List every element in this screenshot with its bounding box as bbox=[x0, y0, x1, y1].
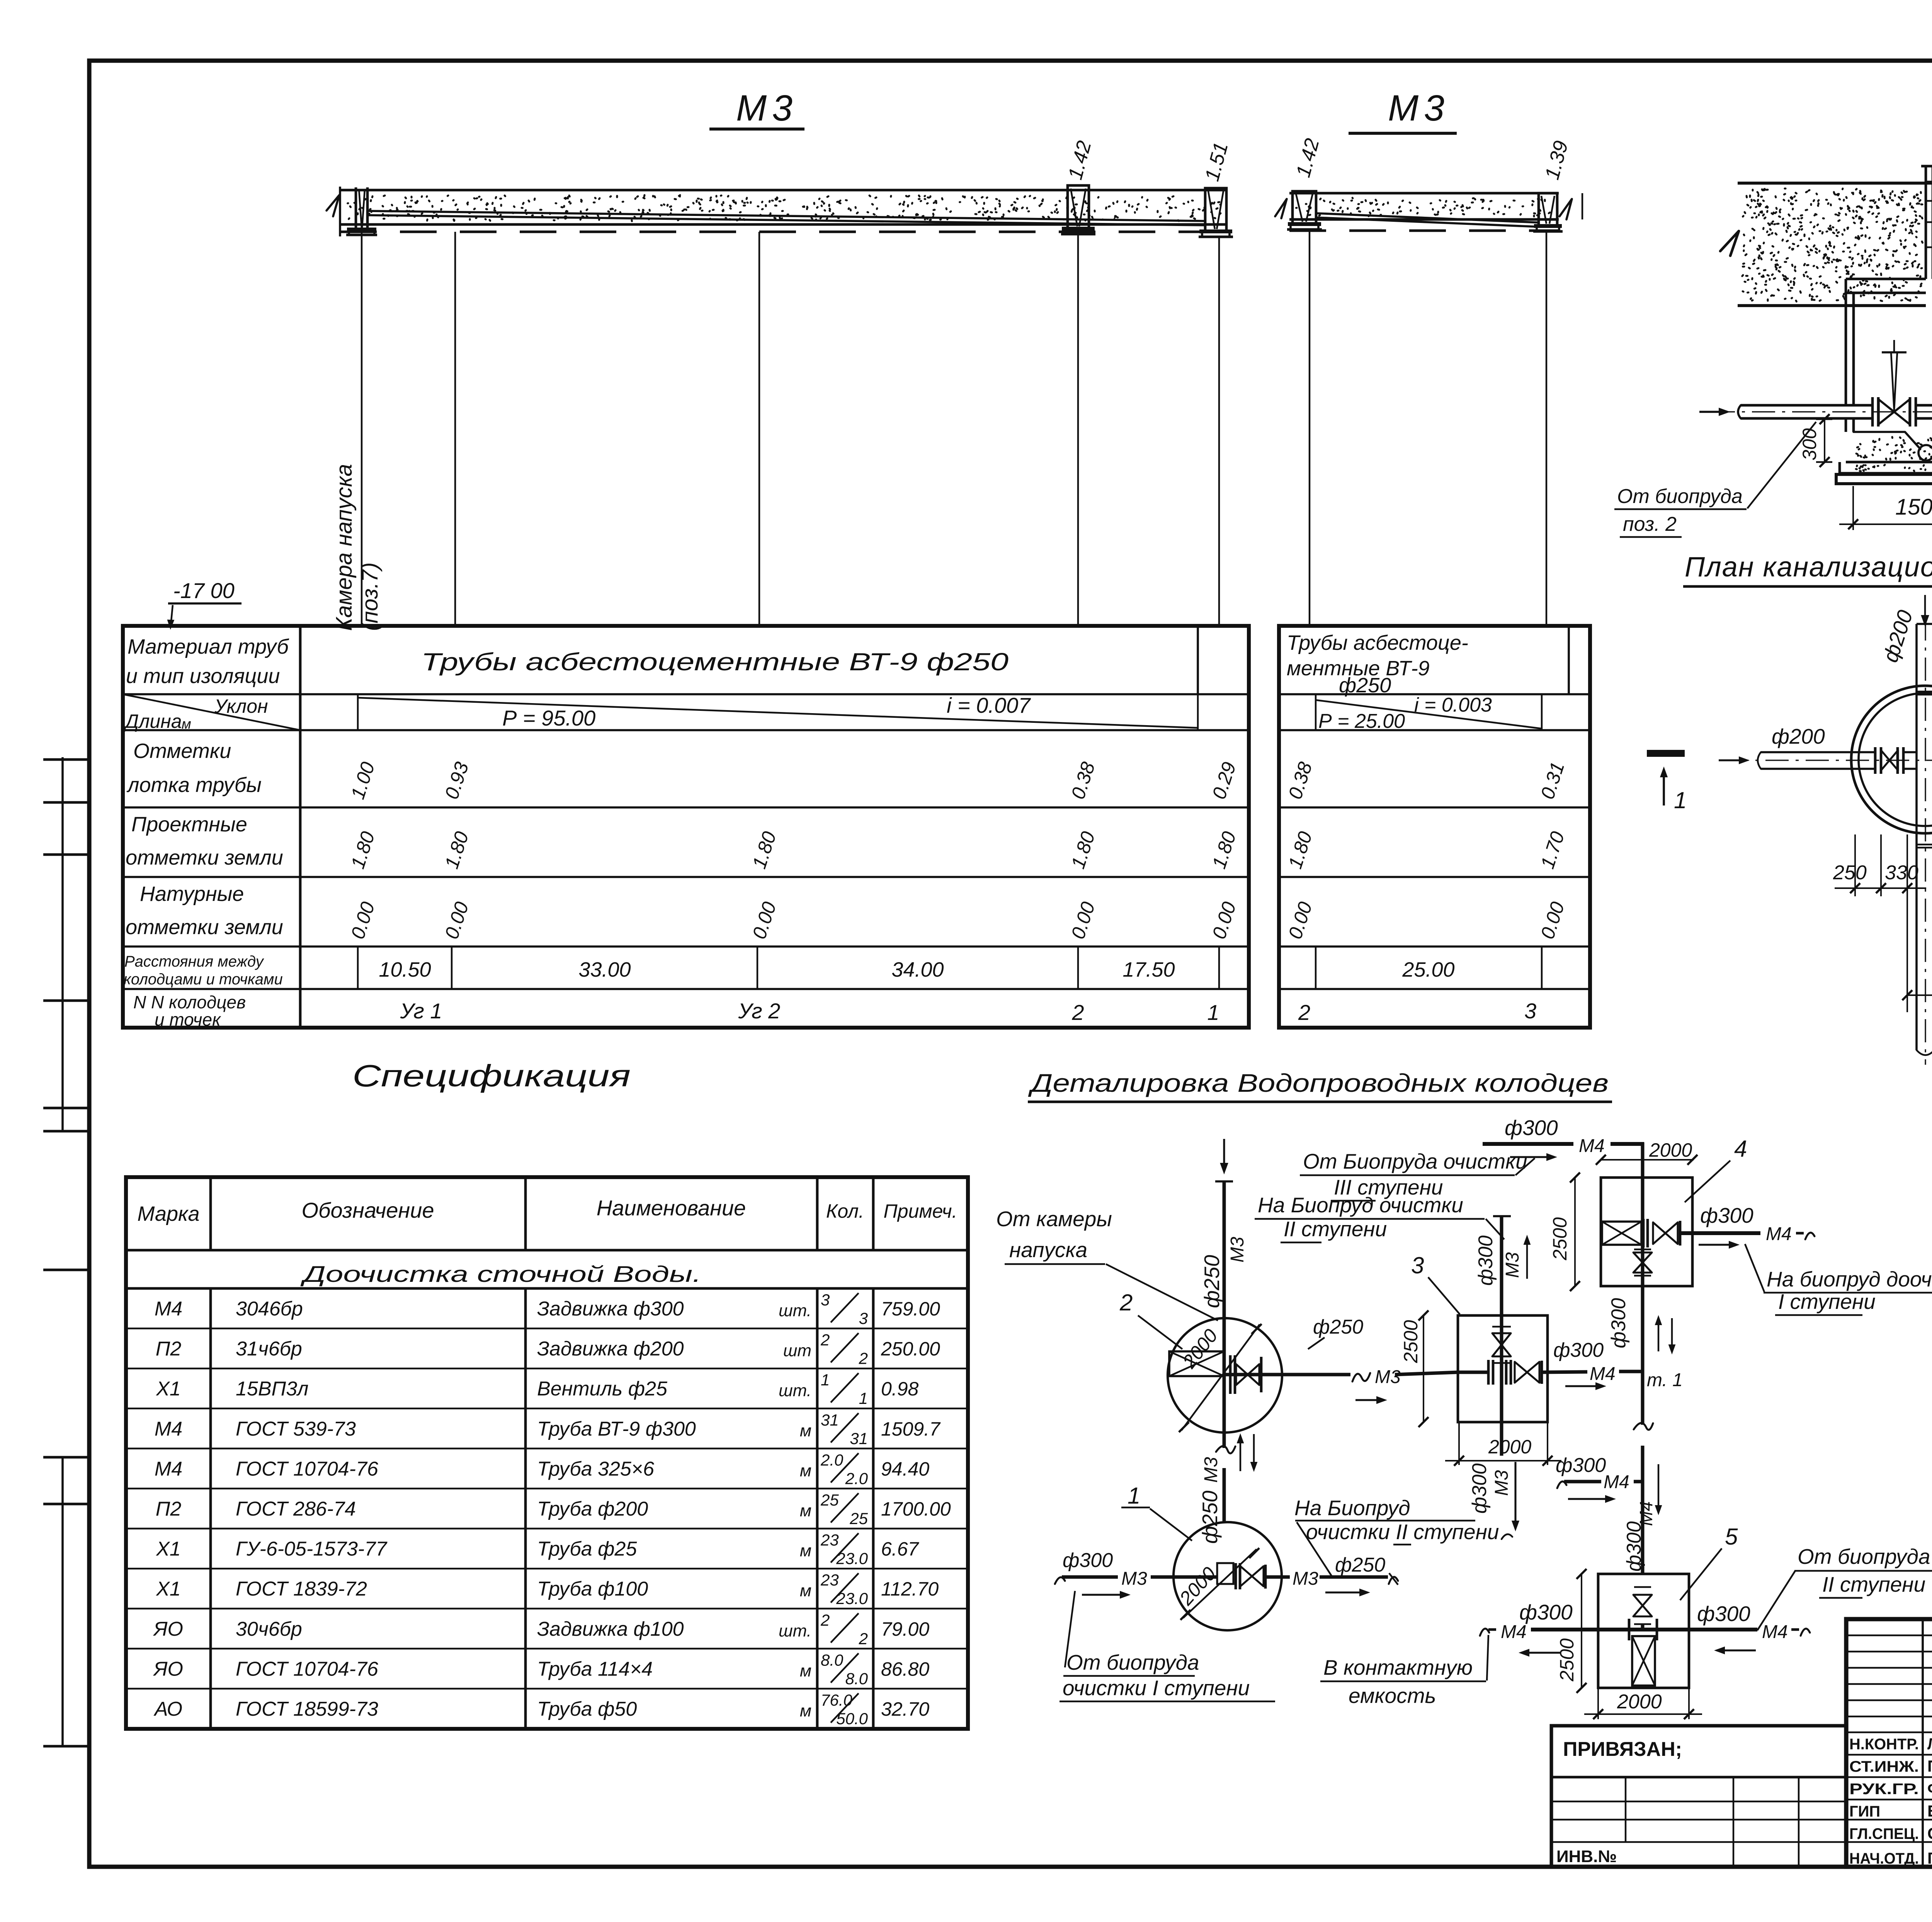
table row line bbox=[123, 729, 1249, 731]
well 1 circle bbox=[1173, 1522, 1282, 1630]
svg-text:Обозначение: Обозначение bbox=[301, 1198, 434, 1222]
inflow arrow well2 bbox=[1223, 1139, 1225, 1167]
svg-text:В контактную: В контактную bbox=[1323, 1655, 1473, 1679]
svg-text:Материал труб: Материал труб bbox=[128, 635, 289, 658]
vertical pipe plan bbox=[1915, 624, 1918, 1050]
svg-text:ГОСТ 18599-73: ГОСТ 18599-73 bbox=[236, 1698, 378, 1720]
svg-text:2500: 2500 bbox=[1400, 1320, 1422, 1363]
svg-text:ф300: ф300 bbox=[1468, 1463, 1491, 1514]
svg-text:От камеры: От камеры bbox=[996, 1207, 1112, 1231]
svg-text:250.00: 250.00 bbox=[881, 1338, 940, 1360]
svg-text:М4: М4 bbox=[1636, 1501, 1656, 1526]
svg-text:Уг 2: Уг 2 bbox=[738, 999, 781, 1023]
svg-text:м: м bbox=[182, 716, 191, 732]
spec row line bbox=[126, 1608, 968, 1609]
title underline 2 bbox=[1349, 132, 1457, 135]
arrows up down junction bbox=[1658, 1321, 1659, 1351]
svg-text:Труба ф200: Труба ф200 bbox=[537, 1498, 648, 1520]
svg-text:2000: 2000 bbox=[1617, 1691, 1662, 1713]
svg-text:3046бр: 3046бр bbox=[236, 1298, 303, 1320]
privyazan table bbox=[1551, 1726, 1846, 1867]
svg-text:25: 25 bbox=[849, 1509, 868, 1528]
spec row line bbox=[126, 1368, 968, 1369]
well 5 square bbox=[1598, 1574, 1689, 1688]
plan valve left bbox=[1874, 747, 1877, 774]
svg-text:СИРОТА: СИРОТА bbox=[1927, 1824, 1932, 1842]
svg-text:300: 300 bbox=[1799, 428, 1820, 461]
svg-text:шт.: шт. bbox=[779, 1381, 811, 1400]
spec header row line bbox=[126, 1249, 968, 1252]
svg-text:ЯО: ЯО bbox=[153, 1658, 183, 1680]
well5 flange pair on pipe bbox=[1628, 1619, 1631, 1640]
pipe joints bbox=[1917, 691, 1932, 692]
svg-text:ПАРАХИНА: ПАРАХИНА bbox=[1927, 1757, 1932, 1775]
band break mark right bbox=[1560, 199, 1572, 219]
plan dim 250 330 bbox=[1835, 887, 1926, 889]
flow arrow into plan bbox=[1924, 595, 1926, 620]
svg-text:М3: М3 bbox=[1375, 1367, 1401, 1387]
well4 bowtie valve bbox=[1653, 1222, 1665, 1244]
leader na bioprud to pipe bbox=[1297, 1522, 1332, 1577]
svg-text:3: 3 bbox=[1524, 999, 1536, 1023]
svg-text:м: м bbox=[800, 1581, 811, 1600]
horizontal centerline bbox=[1725, 760, 1932, 761]
well3 pipe inside bbox=[1500, 1315, 1503, 1422]
branch stub f300 M4 bbox=[1557, 1482, 1566, 1488]
svg-text:поз. 2: поз. 2 bbox=[1623, 513, 1677, 535]
svg-text:От биопруда доочистки: От биопруда доочистки bbox=[1798, 1545, 1932, 1569]
svg-text:ГУ-6-05-1573-77: ГУ-6-05-1573-77 bbox=[236, 1538, 388, 1560]
stamp vertical dividers left part bbox=[1922, 1619, 1924, 1867]
svg-text:и точек: и точек bbox=[155, 1009, 221, 1030]
svg-text:ф300: ф300 bbox=[1623, 1521, 1645, 1572]
svg-text:Уг 1: Уг 1 bbox=[400, 999, 442, 1023]
svg-text:М4: М4 bbox=[1501, 1622, 1527, 1642]
svg-text:БУДАЕВА: БУДАЕВА bbox=[1927, 1802, 1932, 1820]
svg-text:3: 3 bbox=[821, 1291, 830, 1309]
svg-text:(поз.7): (поз.7) bbox=[357, 562, 383, 631]
svg-text:1500: 1500 bbox=[1895, 495, 1932, 520]
svg-text:м: м bbox=[800, 1541, 811, 1560]
plan dim 1500 bbox=[1907, 994, 1932, 996]
gate valve 1 flanges bbox=[1871, 397, 1874, 427]
svg-text:Х1: Х1 bbox=[156, 1378, 181, 1400]
svg-text:т. 1: т. 1 bbox=[1647, 1370, 1683, 1390]
svg-text:2500: 2500 bbox=[1556, 1638, 1578, 1682]
svg-text:шт: шт bbox=[783, 1341, 811, 1360]
svg-text:От биопруда: От биопруда bbox=[1617, 485, 1743, 508]
right riser profile2 bbox=[1539, 193, 1557, 226]
pipe invert line profile 1 bbox=[368, 211, 1205, 221]
svg-text:Расстояния между: Расстояния между bbox=[124, 953, 265, 970]
leader v kontaktnuyu bbox=[1487, 1635, 1488, 1681]
well2 gate valve X box bbox=[1169, 1351, 1224, 1376]
fold tick bbox=[43, 1130, 90, 1133]
left margin fold line upper bbox=[61, 757, 64, 1132]
svg-text:Примеч.: Примеч. bbox=[884, 1200, 957, 1222]
svg-text:ГОСТ 286-74: ГОСТ 286-74 bbox=[236, 1498, 356, 1520]
table2 row line bbox=[1279, 693, 1590, 695]
diagonal uklon cell bbox=[123, 694, 300, 730]
svg-text:М4: М4 bbox=[155, 1298, 182, 1320]
sump circle bbox=[1918, 445, 1932, 461]
svg-text:ф300: ф300 bbox=[1553, 1339, 1604, 1361]
svg-text:23.0: 23.0 bbox=[836, 1589, 868, 1608]
well5 2500 dim bbox=[1581, 1574, 1582, 1688]
standpipe at chamber (left riser) bbox=[355, 187, 357, 229]
well4 gate X box bbox=[1602, 1222, 1641, 1245]
svg-text:86.80: 86.80 bbox=[881, 1658, 929, 1680]
chamber roof slab bbox=[1846, 278, 1926, 280]
svg-text:i = 0.007: i = 0.007 bbox=[947, 693, 1031, 717]
table row line bbox=[123, 945, 1249, 948]
svg-text:8.0: 8.0 bbox=[845, 1669, 868, 1687]
table2 row line bbox=[1279, 945, 1590, 948]
svg-text:м: м bbox=[800, 1701, 811, 1720]
svg-text:Х1: Х1 bbox=[156, 1578, 181, 1600]
svg-text:напуска: напуска bbox=[1009, 1238, 1087, 1262]
ordinate line well 1 bbox=[1218, 237, 1220, 626]
svg-text:2000: 2000 bbox=[1488, 1436, 1531, 1458]
svg-text:Р = 25.00: Р = 25.00 bbox=[1318, 710, 1405, 732]
riser 2 (well 2) bbox=[1068, 185, 1089, 229]
svg-text:1509.7: 1509.7 bbox=[881, 1418, 941, 1440]
vertical pipe centerline bbox=[1925, 617, 1926, 1065]
svg-text:П2: П2 bbox=[156, 1338, 182, 1360]
svg-text:На биопруд дооч: На биопруд дооч bbox=[1767, 1267, 1932, 1291]
svg-text:Деталировка Водопроводных коло: Деталировка Водопроводных колодцев bbox=[1028, 1069, 1609, 1097]
svg-text:М3: М3 bbox=[1492, 1470, 1512, 1496]
well4 pipe inside vertical bbox=[1641, 1178, 1645, 1286]
arrow under well1 left bbox=[1082, 1594, 1124, 1596]
svg-text:2: 2 bbox=[859, 1630, 868, 1648]
svg-text:2.0: 2.0 bbox=[820, 1451, 844, 1469]
svg-text:34.00: 34.00 bbox=[891, 958, 944, 981]
stamp revision rows bbox=[1846, 1635, 1932, 1636]
svg-text:112.70: 112.70 bbox=[881, 1578, 939, 1600]
well5 vertical bowtie bbox=[1633, 1595, 1652, 1606]
svg-text:Наименование: Наименование bbox=[597, 1196, 746, 1220]
ordinate line p2 right bbox=[1546, 231, 1547, 626]
riser 1 (well 1) bbox=[1205, 188, 1226, 231]
arrow right mid bbox=[1355, 1399, 1381, 1401]
svg-text:330: 330 bbox=[1885, 862, 1918, 884]
svg-text:М4: М4 bbox=[1590, 1364, 1616, 1384]
ground band hatch profile 2 bbox=[1289, 192, 1559, 195]
ground band left break bbox=[1720, 231, 1739, 256]
svg-text:Уклон: Уклон bbox=[214, 695, 268, 717]
ground band hatch profile 1 bbox=[340, 189, 1227, 192]
svg-text:31ч6бр: 31ч6бр bbox=[236, 1338, 302, 1360]
profile table main frame bbox=[123, 626, 1249, 1028]
svg-text:1: 1 bbox=[1128, 1483, 1140, 1509]
svg-text:2: 2 bbox=[820, 1331, 830, 1349]
svg-text:ГОСТ 10704-76: ГОСТ 10704-76 bbox=[236, 1658, 378, 1680]
well 3 square bbox=[1458, 1315, 1548, 1422]
svg-text:Кол.: Кол. bbox=[826, 1200, 864, 1222]
table row line bbox=[123, 806, 1249, 809]
ground bottom line left bbox=[1738, 304, 1926, 307]
svg-text:ПРИВЯЗАН;: ПРИВЯЗАН; bbox=[1563, 1738, 1682, 1761]
section marker left bbox=[1647, 750, 1685, 757]
ordinate line Ug2 bbox=[759, 232, 760, 626]
well1 left pipe bbox=[1055, 1577, 1065, 1584]
chamber floor with sump bbox=[1854, 432, 1919, 447]
well 2 wall circles bbox=[1851, 686, 1932, 833]
svg-text:31: 31 bbox=[821, 1411, 839, 1429]
spec row line bbox=[126, 1448, 968, 1449]
well3 horizontal assembly bbox=[1487, 1360, 1490, 1385]
well5 horizontal pipe bbox=[1480, 1629, 1489, 1636]
svg-text:2: 2 bbox=[859, 1349, 868, 1368]
spec row line bbox=[126, 1488, 968, 1489]
svg-text:ф300: ф300 bbox=[1475, 1235, 1497, 1286]
ground top line bbox=[1738, 182, 1932, 185]
svg-text:15ВП3л: 15ВП3л bbox=[236, 1378, 308, 1400]
svg-text:5: 5 bbox=[1725, 1524, 1738, 1550]
ordinate line camera bbox=[361, 232, 362, 626]
svg-text:От биопруда: От биопруда bbox=[1066, 1650, 1199, 1674]
flow arrows pair bbox=[1240, 1439, 1241, 1471]
inlet arrow left bbox=[1699, 411, 1724, 413]
well4 vertical bowtie below bbox=[1633, 1252, 1652, 1263]
well2 outlet pipe right bbox=[1224, 1373, 1350, 1376]
svg-text:ф250: ф250 bbox=[1200, 1255, 1224, 1308]
svg-text:шт.: шт. bbox=[779, 1621, 811, 1640]
fold tick bbox=[43, 999, 90, 1002]
table2 material divider bbox=[1568, 626, 1570, 694]
svg-text:1: 1 bbox=[1207, 1000, 1219, 1025]
table2 row line bbox=[1279, 806, 1590, 809]
svg-text:ЛОГВИНСКАЯ: ЛОГВИНСКАЯ bbox=[1927, 1735, 1932, 1753]
spec column line bbox=[872, 1177, 875, 1250]
svg-text:М4: М4 bbox=[1766, 1224, 1792, 1244]
svg-text:От Биопруда очистки: От Биопруда очистки bbox=[1303, 1149, 1527, 1173]
svg-text:Отметки: Отметки bbox=[133, 739, 231, 763]
svg-text:ф300: ф300 bbox=[1519, 1600, 1573, 1624]
well 4 square bbox=[1601, 1178, 1692, 1286]
well3 2500 dim bbox=[1423, 1315, 1424, 1422]
leader kamera to pipe bbox=[1106, 1264, 1218, 1320]
spec row line bbox=[126, 1688, 968, 1689]
svg-text:ф200: ф200 bbox=[1772, 724, 1825, 748]
masonry joints neck bbox=[1926, 181, 1932, 182]
well1 valve assembly bbox=[1174, 1575, 1217, 1579]
spec subheader row line bbox=[126, 1287, 968, 1290]
floor concrete hatch bbox=[1856, 437, 1932, 460]
ground hatch left band bbox=[1742, 189, 1923, 302]
svg-text:отметки земли: отметки земли bbox=[126, 846, 283, 869]
svg-text:Х1: Х1 bbox=[156, 1538, 181, 1560]
material row end divider bbox=[1197, 626, 1199, 694]
svg-text:1700.00: 1700.00 bbox=[881, 1498, 951, 1520]
svg-text:23: 23 bbox=[820, 1571, 839, 1589]
svg-text:М4: М4 bbox=[155, 1458, 182, 1480]
svg-text:23.0: 23.0 bbox=[836, 1550, 868, 1568]
svg-text:2: 2 bbox=[820, 1611, 830, 1629]
plan inflow arrow left bbox=[1719, 759, 1743, 761]
junction down run bbox=[1641, 1368, 1645, 1425]
plan dim ext lines bbox=[1854, 834, 1856, 896]
svg-text:759.00: 759.00 bbox=[881, 1298, 940, 1320]
well3 arrow down flow bbox=[1514, 1462, 1516, 1525]
table row line bbox=[123, 988, 1249, 990]
well4 2000 dim bbox=[1601, 1159, 1694, 1161]
well4 outlet right bbox=[1680, 1231, 1760, 1235]
svg-text:П2: П2 bbox=[156, 1498, 182, 1520]
svg-text:2000: 2000 bbox=[1649, 1139, 1692, 1161]
svg-text:м: м bbox=[800, 1461, 811, 1480]
pipe break S mark bbox=[1352, 1373, 1370, 1382]
well5 arrows left bbox=[1525, 1652, 1560, 1653]
spec row line bbox=[126, 1327, 968, 1329]
svg-text:94.40: 94.40 bbox=[881, 1458, 929, 1480]
well2 vertical pipe inside bbox=[1223, 1319, 1226, 1431]
svg-text:АО: АО bbox=[153, 1698, 182, 1720]
bottom plate bbox=[1836, 474, 1932, 484]
svg-text:м: м bbox=[800, 1421, 811, 1440]
fold tick bbox=[43, 801, 90, 804]
svg-text:Труба ф25: Труба ф25 bbox=[537, 1538, 637, 1560]
svg-text:ф300: ф300 bbox=[1607, 1298, 1630, 1348]
profile table 2 frame bbox=[1279, 626, 1590, 1028]
well2 to well1 pipe bbox=[1223, 1431, 1226, 1448]
spec column line bbox=[816, 1177, 819, 1250]
plan title underline bbox=[1683, 585, 1932, 588]
svg-text:ІІ ступени: ІІ ступени bbox=[1822, 1572, 1925, 1596]
svg-text:ф250: ф250 bbox=[1313, 1316, 1363, 1338]
leader ot bioprudy bbox=[1065, 1591, 1075, 1667]
table2 row line bbox=[1279, 729, 1590, 731]
detail title underline bbox=[1028, 1101, 1612, 1103]
svg-text:ГОСТ 1839-72: ГОСТ 1839-72 bbox=[236, 1578, 367, 1600]
svg-text:М3: М3 bbox=[1502, 1252, 1523, 1278]
svg-text:30ч6бр: 30ч6бр bbox=[236, 1618, 302, 1640]
dashed ground line 2 bbox=[1289, 229, 1559, 232]
svg-text:1: 1 bbox=[1674, 787, 1687, 813]
gate valve 1 stem bbox=[1891, 352, 1897, 410]
svg-text:м: м bbox=[800, 1661, 811, 1680]
svg-text:М4: М4 bbox=[1762, 1622, 1788, 1642]
svg-text:лотка трубы: лотка трубы bbox=[126, 773, 262, 797]
leader to left pipe bbox=[1747, 422, 1816, 508]
svg-text:ГЛ.СПЕЦ.: ГЛ.СПЕЦ. bbox=[1849, 1825, 1919, 1842]
svg-text:-17 00: -17 00 bbox=[173, 578, 235, 603]
table row line bbox=[123, 693, 1249, 695]
svg-text:6.67: 6.67 bbox=[881, 1538, 920, 1560]
ordinate line well 2 bbox=[1077, 234, 1079, 626]
dimension 300 bbox=[1816, 418, 1832, 420]
svg-text:М3: М3 bbox=[1388, 88, 1450, 129]
svg-text:33.00: 33.00 bbox=[578, 958, 631, 981]
table2 row line bbox=[1279, 876, 1590, 878]
well2 horizontal valve bbox=[1236, 1364, 1248, 1385]
svg-text:ГОСТ 539-73: ГОСТ 539-73 bbox=[236, 1418, 356, 1440]
svg-text:Марка: Марка bbox=[137, 1202, 199, 1225]
well4 flange pair bbox=[1642, 1219, 1645, 1247]
svg-text:Спецификация: Спецификация bbox=[352, 1059, 631, 1093]
spec column line bbox=[524, 1177, 527, 1250]
ordinate line p2 left bbox=[1309, 229, 1310, 626]
svg-text:Натурные: Натурные bbox=[140, 882, 244, 906]
svg-text:Труба ф50: Труба ф50 bbox=[537, 1698, 637, 1720]
svg-text:М4: М4 bbox=[155, 1418, 182, 1440]
svg-text:ф300: ф300 bbox=[1697, 1602, 1750, 1626]
svg-text:i = 0.003: i = 0.003 bbox=[1414, 694, 1492, 716]
svg-text:очистки ІІ ступени: очистки ІІ ступени bbox=[1306, 1520, 1499, 1544]
band break mark left bbox=[1275, 199, 1287, 218]
distances row ticks bbox=[357, 947, 359, 989]
svg-text:Задвижка ф100: Задвижка ф100 bbox=[537, 1618, 684, 1640]
well4 2500 dim bbox=[1574, 1178, 1576, 1286]
horizontal pipe plan bbox=[1761, 751, 1875, 753]
gate valve 1 body bbox=[1879, 399, 1894, 424]
well 2 circle bbox=[1168, 1318, 1282, 1433]
svg-text:М3: М3 bbox=[736, 88, 798, 129]
fold tick bbox=[43, 1456, 90, 1459]
feed arrow bbox=[1510, 1156, 1551, 1158]
svg-text:СТ.ИНЖ.: СТ.ИНЖ. bbox=[1849, 1758, 1919, 1775]
left pipe to chamber bbox=[1741, 404, 1872, 407]
svg-text:очистки I ступени: очистки I ступени bbox=[1063, 1676, 1250, 1700]
left riser profile2 bbox=[1293, 191, 1316, 224]
svg-text:1: 1 bbox=[821, 1371, 830, 1389]
left margin fold line lower bbox=[61, 1456, 64, 1746]
well2 inlet pipe top bbox=[1215, 1180, 1233, 1183]
stamp signature row lines bbox=[1846, 1732, 1932, 1733]
svg-text:ф300: ф300 bbox=[1700, 1203, 1753, 1227]
well3 horizontal pipe bbox=[1458, 1371, 1488, 1374]
fold tick bbox=[43, 853, 90, 856]
svg-text:ГИП: ГИП bbox=[1849, 1803, 1880, 1820]
svg-text:ФЕДОРОВА: ФЕДОРОВА bbox=[1927, 1779, 1932, 1798]
svg-text:ф250: ф250 bbox=[1339, 674, 1391, 697]
fold tick bbox=[43, 1503, 90, 1506]
chamber left wall bbox=[1845, 293, 1847, 404]
dimension 1500 section bbox=[1852, 486, 1854, 530]
svg-text:Н.КОНТР.: Н.КОНТР. bbox=[1849, 1736, 1919, 1753]
svg-text:2500: 2500 bbox=[1549, 1217, 1571, 1261]
arrow under well1 right bbox=[1325, 1591, 1364, 1593]
svg-text:31: 31 bbox=[850, 1429, 868, 1448]
fold tick bbox=[43, 1745, 90, 1748]
well1 diagonal dim 2000 bbox=[1183, 1549, 1257, 1618]
svg-text:ф250: ф250 bbox=[1335, 1554, 1385, 1576]
svg-text:2: 2 bbox=[1071, 1000, 1084, 1025]
svg-text:ІІ ступени: ІІ ступени bbox=[1284, 1217, 1387, 1241]
svg-text:м: м bbox=[800, 1501, 811, 1520]
svg-text:23: 23 bbox=[820, 1531, 839, 1549]
svg-text:НАЧ.ОТД.: НАЧ.ОТД. bbox=[1849, 1850, 1919, 1867]
svg-text:1: 1 bbox=[859, 1389, 868, 1407]
title underline bbox=[709, 127, 804, 131]
svg-text:М4: М4 bbox=[1579, 1136, 1605, 1156]
table2 uklon ticks bbox=[1315, 694, 1316, 730]
band left end tick bbox=[339, 187, 341, 236]
uklon row ticks bbox=[357, 694, 359, 730]
well3 vertical valve bbox=[1492, 1333, 1511, 1345]
ordinate line Ug1 bbox=[454, 232, 456, 626]
well2 diagonal dimension 2000 bbox=[1182, 1324, 1260, 1430]
svg-text:Камера напуска: Камера напуска bbox=[332, 464, 357, 631]
svg-text:М3: М3 bbox=[1293, 1569, 1318, 1589]
svg-text:2: 2 bbox=[1298, 1000, 1310, 1025]
svg-text:М4: М4 bbox=[1604, 1472, 1629, 1492]
well3 arrow up bbox=[1526, 1241, 1528, 1279]
well1 right pipe bbox=[1265, 1575, 1290, 1579]
well5 2000 dim bbox=[1597, 1688, 1599, 1719]
spec row line bbox=[126, 1408, 968, 1409]
